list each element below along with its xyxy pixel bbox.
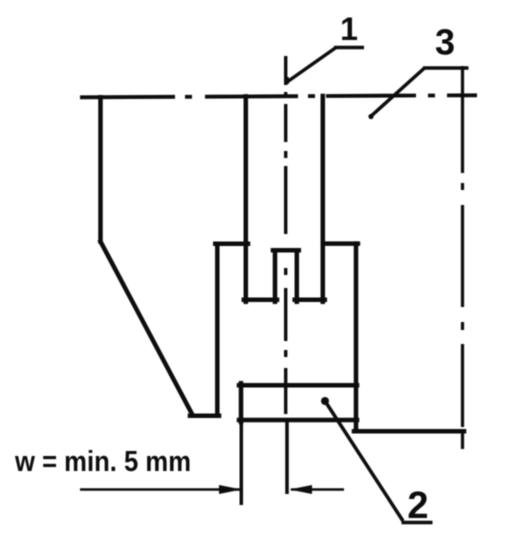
svg-text:2: 2 — [407, 485, 428, 527]
svg-text:3: 3 — [435, 22, 455, 63]
svg-text:1: 1 — [340, 11, 358, 47]
svg-text:w = min. 5 mm: w = min. 5 mm — [14, 446, 191, 478]
